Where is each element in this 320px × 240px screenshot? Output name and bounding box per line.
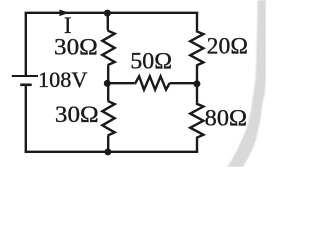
wire left upper (top-left corner to battery) [25, 13, 27, 75]
wire top (top-left corner to top-right corner) [25, 12, 199, 14]
node dot bottom [104, 148, 111, 155]
svg-text:108V: 108V [38, 67, 88, 92]
resistor R3 50ohm middle [134, 76, 169, 89]
current arrow [59, 10, 69, 17]
svg-text:80Ω: 80Ω [205, 106, 247, 131]
svg-text:20Ω: 20Ω [207, 34, 248, 59]
svg-text:30Ω: 30Ω [55, 102, 99, 127]
wire right lower (80-ohm to bottom-right corner) [196, 138, 198, 152]
decorative page-curl swoosh [227, 0, 266, 167]
node dot mid-left [104, 80, 111, 87]
resistor R2 30ohm bottom [102, 100, 114, 135]
battery V1 short plate (-) [20, 84, 32, 87]
wire right upper (top-right corner to 20-ohm) [196, 13, 198, 31]
node dot top [104, 10, 111, 17]
resistor R5 80ohm right bottom [190, 103, 203, 138]
resistor R4 20ohm right top [190, 31, 203, 66]
wire middle rail left (node to 50-ohm) [107, 82, 134, 84]
wire middle rail right (50-ohm to right branch) [170, 82, 198, 84]
svg-text:50Ω: 50Ω [130, 49, 172, 74]
battery V1 long plate (+) [12, 75, 38, 77]
wire right middle (20-ohm to 80-ohm) [196, 66, 198, 103]
svg-text:30Ω: 30Ω [54, 35, 98, 60]
wire middle-branch bottom lead [107, 136, 109, 152]
node dot mid-right [193, 80, 200, 87]
wire bottom (bottom-left corner to bottom-right corner) [25, 151, 199, 153]
wire left lower (battery to bottom-left corner) [25, 86, 27, 152]
wire middle-branch top lead [107, 13, 109, 30]
wire middle-branch between resistors [107, 65, 109, 100]
resistor R1 30ohm top [102, 30, 114, 65]
